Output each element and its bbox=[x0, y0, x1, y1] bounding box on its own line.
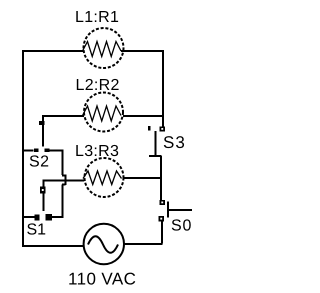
AC source circle bbox=[84, 224, 124, 264]
wire right rail upper bbox=[162, 50, 164, 127]
wire left rail bbox=[22, 50, 24, 247]
switch S0 terminal bottom bbox=[159, 216, 165, 222]
resistor zigzag R1 bbox=[83, 42, 122, 57]
svg-text:S3: S3 bbox=[163, 133, 186, 152]
switch S1 terminal A bbox=[35, 215, 40, 221]
wire lamp3 right to rail bbox=[124, 177, 162, 179]
wire right rail middle bbox=[160, 156, 162, 200]
wire lamp2 left + corner to S2 bbox=[43, 116, 84, 121]
AC sine wave bbox=[88, 236, 118, 253]
wire S0 to bottom corner bbox=[161, 222, 163, 244]
svg-text:L2:R2: L2:R2 bbox=[76, 77, 120, 94]
switch S1 left contact wire bbox=[24, 216, 35, 218]
switch S2 actuator square bbox=[39, 121, 45, 125]
lamp L3 circle bbox=[85, 158, 124, 197]
switch S0 blade bbox=[167, 202, 169, 218]
switch S2 terminal A bbox=[34, 149, 39, 153]
switch S0 terminal top bbox=[160, 200, 166, 205]
switch S0 actuator bbox=[169, 209, 193, 211]
wire lamp3 left bbox=[43, 180, 85, 182]
wire S1 branch vertical bbox=[52, 185, 63, 218]
svg-text:S0: S0 bbox=[171, 218, 192, 235]
switch S3 actuator tick bbox=[148, 126, 151, 131]
lamp L1 circle bbox=[84, 28, 124, 68]
resistor zigzag R3 bbox=[83, 171, 122, 185]
switch S2 right contact wire + corner down bbox=[50, 151, 63, 176]
switch S1 terminal B bbox=[46, 214, 53, 221]
svg-text:L1:R1: L1:R1 bbox=[75, 9, 119, 26]
switch S2 terminal B bbox=[45, 149, 50, 153]
svg-text:S2: S2 bbox=[29, 154, 50, 171]
wire bottom right bbox=[123, 243, 163, 245]
svg-text:S1: S1 bbox=[27, 222, 47, 239]
svg-text:110 VAC: 110 VAC bbox=[68, 270, 136, 289]
resistor zigzag R2 bbox=[83, 106, 122, 121]
switch S1 actuator square bbox=[40, 187, 46, 194]
wire top rail right bbox=[121, 50, 164, 52]
lamp L2 circle bbox=[84, 93, 123, 132]
switch S3 blade bbox=[149, 131, 162, 156]
switch S2 left contact wire bbox=[24, 150, 34, 152]
switch S1 blade riser bbox=[43, 181, 45, 211]
wire bottom left bbox=[22, 245, 83, 247]
wire lamp2 right to rail bbox=[123, 115, 164, 117]
wire top rail left bbox=[22, 50, 83, 52]
node jog S2/L3/S1 junction bbox=[62, 175, 66, 186]
switch S3 terminal top bbox=[160, 127, 166, 132]
svg-text:L3:R3: L3:R3 bbox=[75, 143, 119, 160]
switch S2 blade riser bbox=[42, 116, 44, 147]
